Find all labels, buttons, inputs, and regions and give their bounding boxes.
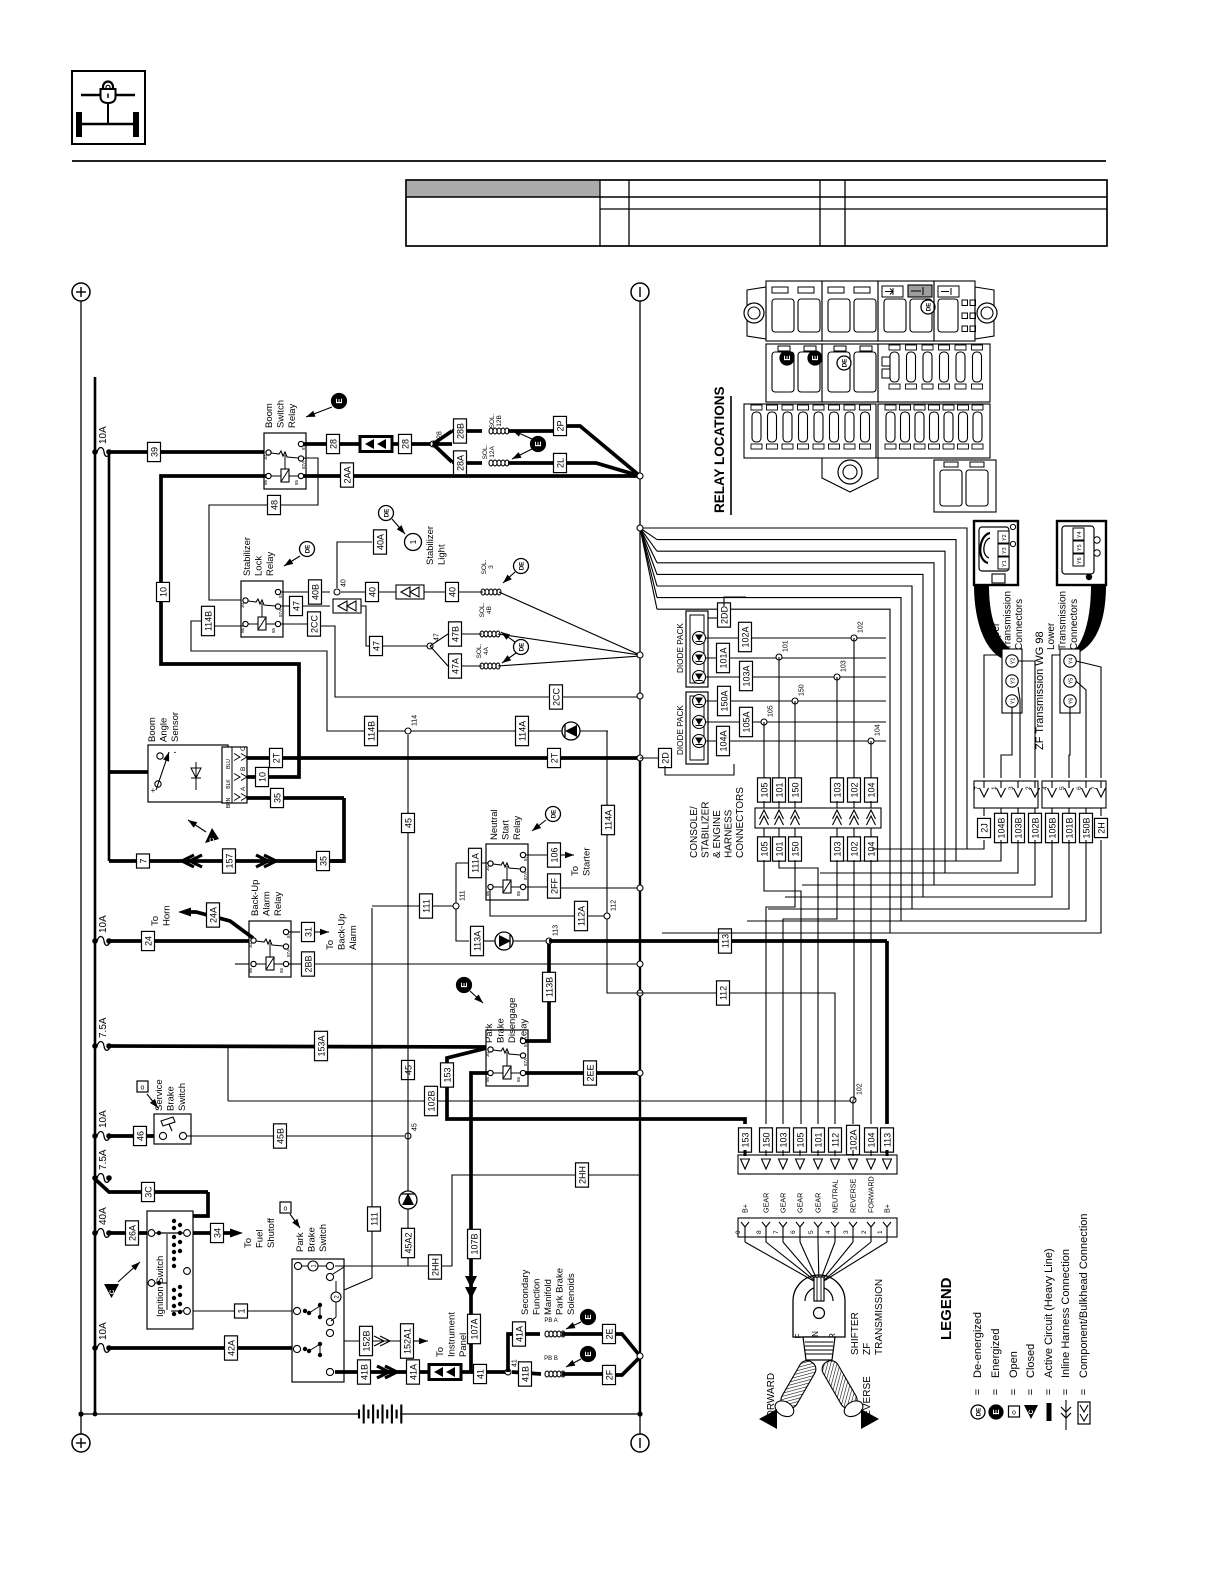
svg-text:Starter: Starter <box>582 847 593 876</box>
svg-text:103: 103 <box>832 782 842 797</box>
svg-text:1: 1 <box>991 786 998 790</box>
svg-text:113: 113 <box>720 934 730 948</box>
svg-text:150: 150 <box>790 841 800 856</box>
svg-text:LEGEND: LEGEND <box>938 1277 955 1340</box>
svg-text:41B: 41B <box>359 1364 369 1380</box>
svg-text:112: 112 <box>611 900 618 911</box>
svg-text:Angle: Angle <box>159 718 170 742</box>
svg-text:1: 1 <box>236 1308 246 1313</box>
svg-text:FORWARD: FORWARD <box>867 1176 876 1213</box>
svg-text:Upper: Upper <box>991 622 1002 650</box>
svg-text:10: 10 <box>257 772 267 782</box>
svg-text:GEAR: GEAR <box>814 1193 823 1213</box>
svg-text:Park: Park <box>295 1232 306 1252</box>
svg-text:Panel: Panel <box>458 1333 469 1357</box>
svg-text:B+: B+ <box>883 1204 892 1213</box>
svg-text:102B: 102B <box>426 1090 436 1111</box>
svg-text:112A: 112A <box>576 906 586 926</box>
svg-text:28B: 28B <box>455 423 465 439</box>
svg-text:B: B <box>240 767 247 771</box>
svg-text:DE: DE <box>926 303 933 312</box>
svg-text:5: 5 <box>1059 786 1066 790</box>
svg-text:DE: DE <box>842 359 849 368</box>
svg-text:F: F <box>794 1333 803 1338</box>
svg-text:Transmission: Transmission <box>1003 591 1014 650</box>
svg-text:TRANSMISSION: TRANSMISSION <box>874 1279 885 1355</box>
svg-text:SOL.: SOL. <box>489 413 496 428</box>
svg-text:12A: 12A <box>489 446 496 458</box>
svg-text:86: 86 <box>240 627 245 633</box>
svg-text:47: 47 <box>291 601 301 611</box>
svg-text:31: 31 <box>303 927 313 937</box>
svg-text:112: 112 <box>830 1133 840 1147</box>
svg-text:2D: 2D <box>660 752 670 764</box>
svg-text:Brake: Brake <box>166 1086 177 1111</box>
svg-text:2: 2 <box>1025 786 1032 790</box>
svg-text:3: 3 <box>843 1230 850 1234</box>
svg-text:45: 45 <box>403 818 413 828</box>
svg-text:=: = <box>1043 1389 1055 1395</box>
svg-text:Shutoff: Shutoff <box>266 1218 277 1248</box>
svg-text:6: 6 <box>1076 786 1083 790</box>
svg-text:113: 113 <box>882 1133 892 1147</box>
svg-text:ZF Transmission WG 98: ZF Transmission WG 98 <box>1034 631 1046 750</box>
svg-text:105B: 105B <box>1047 817 1057 838</box>
svg-text:HARNESS: HARNESS <box>724 809 735 858</box>
svg-text:GEAR: GEAR <box>796 1193 805 1213</box>
svg-text:114A: 114A <box>517 721 527 741</box>
svg-text:85: 85 <box>516 890 521 896</box>
svg-text:101B: 101B <box>1064 817 1074 838</box>
svg-text:107B: 107B <box>469 1233 479 1254</box>
svg-text:103A: 103A <box>741 665 751 686</box>
svg-text:2HH: 2HH <box>430 1258 440 1276</box>
svg-text:=: = <box>1008 1389 1020 1395</box>
svg-text:104A: 104A <box>718 730 728 751</box>
svg-text:E: E <box>811 355 820 361</box>
svg-text:102A: 102A <box>848 1129 858 1150</box>
svg-text:Back-Up: Back-Up <box>250 880 261 916</box>
svg-text:40A: 40A <box>375 534 385 550</box>
svg-text:Light: Light <box>437 544 448 565</box>
svg-text:E: E <box>783 355 792 361</box>
svg-text:7.5A: 7.5A <box>98 1149 109 1170</box>
svg-text:Relay: Relay <box>287 403 298 428</box>
svg-text:Instrument: Instrument <box>447 1312 458 1357</box>
svg-text:Stabilizer: Stabilizer <box>242 537 253 576</box>
svg-text:Solenoids: Solenoids <box>566 1273 577 1315</box>
svg-text:41: 41 <box>475 1369 485 1379</box>
svg-text:3: 3 <box>488 565 495 569</box>
svg-text:104: 104 <box>866 782 876 797</box>
svg-text:A: A <box>240 786 247 791</box>
svg-text:De-energized: De-energized <box>972 1312 984 1378</box>
svg-text:B+: B+ <box>741 1204 750 1213</box>
svg-text:Stabilizer: Stabilizer <box>425 526 436 565</box>
svg-text:10: 10 <box>158 587 168 597</box>
svg-text:2J: 2J <box>979 823 989 833</box>
svg-text:101: 101 <box>813 1132 823 1147</box>
svg-text:86: 86 <box>248 967 253 973</box>
svg-text:7: 7 <box>1091 786 1098 790</box>
svg-text:85: 85 <box>294 479 299 485</box>
svg-text:4: 4 <box>1042 786 1049 790</box>
svg-text:48: 48 <box>269 500 279 510</box>
svg-text:Ignition Switch: Ignition Switch <box>155 1256 166 1317</box>
svg-text:DIODE PACK: DIODE PACK <box>676 623 685 673</box>
svg-text:2DD: 2DD <box>719 606 729 625</box>
svg-text:Y5: Y5 <box>1069 678 1075 685</box>
svg-text:102: 102 <box>849 782 859 797</box>
svg-text:107A: 107A <box>469 1318 479 1339</box>
svg-text:4A: 4A <box>483 646 490 655</box>
svg-text:DE: DE <box>305 545 312 554</box>
svg-text:BRN: BRN <box>226 797 232 808</box>
svg-text:SHIFTER: SHIFTER <box>850 1312 861 1355</box>
svg-text:CONSOLE/: CONSOLE/ <box>689 806 700 858</box>
svg-text:41: 41 <box>512 1359 519 1367</box>
svg-text:10A: 10A <box>98 915 109 933</box>
svg-text:DE: DE <box>519 643 526 652</box>
svg-text:BLU: BLU <box>226 759 232 769</box>
svg-text:103: 103 <box>778 1132 788 1147</box>
svg-text:2EE: 2EE <box>585 1064 595 1081</box>
svg-text:105: 105 <box>759 841 769 856</box>
svg-text:114B: 114B <box>366 721 376 741</box>
svg-text:Neutral: Neutral <box>489 809 500 840</box>
svg-text:153A: 153A <box>316 1035 326 1056</box>
svg-text:Y2: Y2 <box>1002 534 1008 541</box>
svg-text:102: 102 <box>857 1083 864 1095</box>
svg-text:111: 111 <box>421 899 431 913</box>
svg-text:Fuel: Fuel <box>255 1230 266 1248</box>
svg-text:28: 28 <box>400 439 410 449</box>
svg-text:150B: 150B <box>1081 817 1091 838</box>
svg-text:PB A: PB A <box>544 1318 557 1324</box>
svg-text:101A: 101A <box>718 647 728 668</box>
svg-text:RELAY LOCATIONS: RELAY LOCATIONS <box>712 386 727 513</box>
svg-text:35: 35 <box>272 793 282 803</box>
svg-text:PB B: PB B <box>544 1356 558 1362</box>
svg-text:2T: 2T <box>271 752 281 763</box>
svg-text:Y3: Y3 <box>1002 547 1008 554</box>
svg-text:41A: 41A <box>514 1326 524 1342</box>
svg-text:Brake: Brake <box>307 1227 318 1252</box>
svg-text:103: 103 <box>841 660 848 672</box>
svg-text:Park Brake: Park Brake <box>555 1268 566 1315</box>
svg-text:2H: 2H <box>1096 822 1106 834</box>
svg-text:104: 104 <box>875 724 882 736</box>
svg-text:REVERSE: REVERSE <box>849 1178 858 1213</box>
svg-text:114B: 114B <box>203 611 213 631</box>
svg-text:101: 101 <box>774 782 784 797</box>
svg-text:=: = <box>990 1389 1002 1395</box>
svg-text:150: 150 <box>799 684 806 696</box>
svg-text:102B: 102B <box>1030 817 1040 838</box>
svg-text:153: 153 <box>740 1132 750 1147</box>
svg-text:Y6: Y6 <box>1069 698 1075 705</box>
svg-text:=: = <box>1025 1389 1037 1395</box>
svg-text:40A: 40A <box>98 1207 109 1225</box>
svg-text:152A1: 152A1 <box>402 1328 412 1354</box>
svg-text:86: 86 <box>263 479 268 485</box>
svg-text:4: 4 <box>825 1230 832 1234</box>
svg-text:Y2: Y2 <box>1011 658 1017 665</box>
svg-text:o: o <box>1012 1410 1016 1417</box>
svg-text:Disengage: Disengage <box>507 998 518 1043</box>
svg-text:86: 86 <box>485 890 490 896</box>
svg-text:24: 24 <box>143 936 153 946</box>
svg-text:Lower: Lower <box>1046 622 1057 650</box>
svg-text:2HH: 2HH <box>577 1166 587 1184</box>
svg-text:Open: Open <box>1008 1351 1020 1378</box>
svg-text:Manifold: Manifold <box>543 1279 554 1315</box>
svg-text:114A: 114A <box>603 810 613 830</box>
svg-text:10A: 10A <box>98 1322 109 1340</box>
svg-text:o: o <box>284 1206 288 1213</box>
svg-text:45A2: 45A2 <box>403 1232 413 1253</box>
svg-text:Y1: Y1 <box>1002 560 1008 567</box>
svg-text:102: 102 <box>858 621 865 633</box>
svg-text:NEUTRAL: NEUTRAL <box>831 1179 840 1213</box>
svg-text:DE: DE <box>384 509 391 518</box>
svg-text:E: E <box>584 1314 593 1320</box>
svg-text:42A: 42A <box>226 1340 236 1356</box>
svg-text:Relay: Relay <box>512 815 523 840</box>
svg-text:SOL.: SOL. <box>482 444 489 459</box>
svg-text:113: 113 <box>553 925 560 936</box>
svg-text:Boom: Boom <box>147 717 158 742</box>
svg-text:=: = <box>972 1389 984 1395</box>
svg-text:ZF: ZF <box>862 1343 873 1355</box>
svg-text:GEAR: GEAR <box>762 1193 771 1213</box>
svg-text:Brake: Brake <box>496 1018 507 1043</box>
svg-text:101: 101 <box>783 640 790 652</box>
svg-text:Park: Park <box>484 1023 495 1043</box>
svg-text:150: 150 <box>761 1132 771 1147</box>
svg-text:8: 8 <box>756 1230 763 1234</box>
svg-text:28A: 28A <box>455 455 465 471</box>
svg-text:114: 114 <box>412 715 419 726</box>
svg-text:Secondary: Secondary <box>520 1269 531 1315</box>
svg-text:To: To <box>325 940 336 950</box>
svg-text:Inline Harness Connection: Inline Harness Connection <box>1060 1249 1072 1378</box>
svg-text:102: 102 <box>849 841 859 856</box>
svg-text:157: 157 <box>224 853 234 868</box>
svg-text:40: 40 <box>447 587 457 597</box>
svg-text:Start: Start <box>501 820 512 840</box>
svg-text:C: C <box>109 1289 116 1294</box>
svg-text:E: E <box>992 1409 1001 1415</box>
svg-text:Relay: Relay <box>265 551 276 576</box>
svg-text:47B: 47B <box>450 626 460 642</box>
svg-text:Function: Function <box>532 1279 543 1315</box>
svg-text:40B: 40B <box>310 584 320 600</box>
svg-text:Lock: Lock <box>254 556 265 576</box>
svg-text:113B: 113B <box>544 977 554 997</box>
svg-text:Sensor: Sensor <box>170 712 181 742</box>
svg-text:Energized: Energized <box>990 1328 1002 1378</box>
svg-text:& ENGINE: & ENGINE <box>712 810 723 858</box>
svg-text:Y6: Y6 <box>1077 557 1083 564</box>
svg-text:105: 105 <box>768 705 775 717</box>
svg-text:1: 1 <box>409 539 418 544</box>
svg-text:47A: 47A <box>450 658 460 674</box>
svg-text:Relay: Relay <box>273 891 284 916</box>
svg-text:102A: 102A <box>740 626 750 647</box>
svg-text:N: N <box>811 1331 820 1337</box>
svg-text:104B: 104B <box>996 817 1006 838</box>
svg-text:DE: DE <box>551 810 558 819</box>
svg-text:To: To <box>150 916 161 926</box>
svg-text:2P: 2P <box>555 420 565 431</box>
svg-text:111: 111 <box>369 1212 379 1226</box>
svg-text:To: To <box>435 1347 446 1357</box>
svg-text:C: C <box>1028 1409 1035 1414</box>
svg-text:Switch: Switch <box>177 1083 188 1111</box>
svg-text:6: 6 <box>790 1230 797 1234</box>
svg-text:2L: 2L <box>555 458 565 468</box>
svg-text:28: 28 <box>328 439 338 449</box>
svg-text:1: 1 <box>877 1230 884 1234</box>
svg-text:35: 35 <box>318 856 328 866</box>
svg-text:Closed: Closed <box>1025 1344 1037 1378</box>
svg-text:E: E <box>460 982 469 988</box>
svg-text:Back-Up: Back-Up <box>337 914 348 950</box>
svg-text:Alarm: Alarm <box>262 891 273 916</box>
svg-text:E: E <box>335 398 344 404</box>
svg-text:40: 40 <box>367 587 377 597</box>
svg-text:45B: 45B <box>275 1128 285 1144</box>
svg-text:104: 104 <box>866 1132 876 1147</box>
svg-text:=: = <box>1078 1389 1090 1395</box>
svg-text:5: 5 <box>808 1230 815 1234</box>
svg-text:2AA: 2AA <box>342 466 352 483</box>
svg-text:10A: 10A <box>98 1110 109 1128</box>
svg-text:3C: 3C <box>143 1186 153 1198</box>
svg-text:Boom: Boom <box>264 403 275 428</box>
svg-text:150A: 150A <box>719 690 729 711</box>
svg-text:Horn: Horn <box>162 905 173 926</box>
svg-text:24A: 24A <box>208 907 218 923</box>
svg-text:85: 85 <box>516 1076 521 1082</box>
svg-text:86: 86 <box>485 1076 490 1082</box>
svg-text:C: C <box>209 837 216 842</box>
svg-text:Connectors: Connectors <box>1069 599 1080 650</box>
svg-text:CONNECTORS: CONNECTORS <box>735 787 746 858</box>
svg-text:113A: 113A <box>472 931 482 951</box>
svg-text:Y1: Y1 <box>1011 698 1017 705</box>
svg-text:Switch: Switch <box>276 400 287 428</box>
svg-text:9: 9 <box>735 1230 742 1234</box>
svg-text:SOL.: SOL. <box>479 602 486 617</box>
svg-text:E: E <box>534 441 543 447</box>
svg-text:2: 2 <box>861 1230 868 1234</box>
svg-text:STABILIZER: STABILIZER <box>701 802 712 859</box>
svg-text:SOL.: SOL. <box>476 643 483 658</box>
svg-text:Connectors: Connectors <box>1014 599 1025 650</box>
svg-text:BLK: BLK <box>226 779 232 789</box>
svg-text:C: C <box>240 746 247 751</box>
svg-text:DE: DE <box>519 562 526 571</box>
svg-text:Alarm: Alarm <box>348 925 359 950</box>
svg-text:-: - <box>174 747 177 757</box>
svg-text:2CC: 2CC <box>309 615 319 634</box>
svg-text:DIODE PACK: DIODE PACK <box>676 705 685 755</box>
svg-text:Active Circuit (Heavy Line): Active Circuit (Heavy Line) <box>1043 1248 1055 1378</box>
svg-text:GEAR: GEAR <box>779 1193 788 1213</box>
svg-text:2F: 2F <box>604 1369 614 1380</box>
svg-text:o: o <box>141 1085 145 1092</box>
svg-text:39: 39 <box>149 447 159 457</box>
svg-text:150: 150 <box>790 782 800 797</box>
svg-text:85: 85 <box>271 627 276 633</box>
svg-text:105: 105 <box>795 1132 805 1147</box>
svg-text:101: 101 <box>774 841 784 856</box>
svg-text:Y5: Y5 <box>1077 544 1083 551</box>
svg-text:47: 47 <box>371 641 381 651</box>
svg-text:41A: 41A <box>408 1364 418 1380</box>
svg-text:7: 7 <box>974 786 981 790</box>
svg-text:111A: 111A <box>470 853 480 873</box>
svg-text:To: To <box>570 866 581 876</box>
svg-text:34: 34 <box>212 1228 222 1238</box>
svg-text:45: 45 <box>412 1123 419 1131</box>
svg-text:DE: DE <box>976 1408 983 1417</box>
svg-text:26A: 26A <box>127 1225 137 1241</box>
svg-text:Service: Service <box>154 1079 165 1111</box>
svg-text:85: 85 <box>279 967 284 973</box>
svg-text:2FF: 2FF <box>549 878 559 895</box>
svg-text:2CC: 2CC <box>551 688 561 707</box>
svg-text:106: 106 <box>549 847 559 862</box>
svg-text:152B: 152B <box>361 1330 371 1351</box>
svg-text:46: 46 <box>135 1131 145 1141</box>
svg-text:40: 40 <box>341 579 348 587</box>
svg-text:41B: 41B <box>520 1366 530 1382</box>
svg-text:10A: 10A <box>98 426 109 444</box>
svg-text:Y3: Y3 <box>1011 678 1017 685</box>
svg-text:Component/Bulkhead Connection: Component/Bulkhead Connection <box>1078 1213 1090 1378</box>
svg-text:To: To <box>243 1238 254 1248</box>
svg-text:Y4: Y4 <box>1077 531 1083 538</box>
svg-text:7: 7 <box>773 1230 780 1234</box>
svg-text:103B: 103B <box>1013 817 1023 838</box>
svg-text:112: 112 <box>718 986 728 1000</box>
svg-text:SOL.: SOL. <box>481 559 488 574</box>
svg-text:105A: 105A <box>741 711 751 732</box>
svg-text:103: 103 <box>832 841 842 856</box>
svg-text:2T: 2T <box>549 752 559 763</box>
svg-text:4B: 4B <box>486 606 493 614</box>
svg-text:153: 153 <box>442 1067 452 1082</box>
svg-text:Switch: Switch <box>318 1224 329 1252</box>
svg-text:12B: 12B <box>496 415 503 427</box>
svg-text:Y4: Y4 <box>1069 658 1075 665</box>
svg-text:7: 7 <box>138 858 148 863</box>
svg-text:Transmission: Transmission <box>1058 591 1069 650</box>
svg-text:E: E <box>584 1351 593 1357</box>
svg-text:2E: 2E <box>604 1328 614 1339</box>
svg-text:105: 105 <box>759 782 769 797</box>
svg-text:2BB: 2BB <box>303 955 313 972</box>
svg-text:3: 3 <box>1008 786 1015 790</box>
svg-text:+: + <box>151 786 156 795</box>
svg-text:=: = <box>1060 1389 1072 1395</box>
svg-text:7.5A: 7.5A <box>98 1017 109 1038</box>
svg-text:111: 111 <box>460 890 467 901</box>
